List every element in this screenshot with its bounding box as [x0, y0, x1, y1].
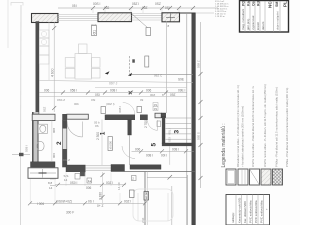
fraction label — [153, 103, 158, 112]
bottom wall segment 3 — [111, 165, 125, 172]
svg-text:006: 006 — [52, 153, 56, 158]
svg-text:008 I: 008 I — [146, 153, 153, 157]
svg-text:mag. consultant: mag. consultant — [241, 9, 245, 30]
svg-text:14,40: 14,40 — [117, 182, 121, 190]
svg-text:0S8 I: 0S8 I — [25, 145, 29, 152]
label box leader — [146, 28, 151, 36]
right outer wall — [192, 13, 196, 225]
stair label box — [157, 121, 161, 127]
svg-text:0SI: 0SI — [95, 93, 100, 97]
top dimension texts — [72, 2, 170, 10]
svg-text:00L I: 00L I — [168, 128, 172, 135]
svg-text:2 300: 2 300 — [96, 132, 100, 140]
stair treads — [166, 118, 193, 139]
svg-text:09? J: 09? J — [109, 82, 118, 86]
window band top-left — [58, 15, 98, 21]
svg-text:S9E: S9E — [178, 78, 184, 82]
arrow mark 2 — [128, 73, 132, 76]
svg-text:008 I: 008 I — [110, 89, 117, 93]
stair door arc — [148, 120, 158, 130]
svg-text:+: + — [266, 207, 268, 211]
svg-text:PL: PL — [283, 1, 288, 7]
door label box 2 — [137, 107, 142, 113]
svg-text:2 180: 2 180 — [99, 192, 103, 200]
interior line mid — [95, 86, 187, 88]
detail box dim texts — [48, 174, 68, 190]
small texts hall top — [94, 121, 100, 129]
svg-text:09Z: 09Z — [170, 93, 176, 97]
svg-text:Příčka - Plné dlouhé zdi 11.5: Příčka - Plné dlouhé zdi 11.5 na tenkovr… — [275, 87, 279, 167]
top right small text stack — [215, 1, 229, 18]
bathroom dim marks — [52, 128, 56, 158]
svg-text:006: 006 — [135, 147, 141, 151]
svg-text:4 600: 4 600 — [50, 68, 54, 77]
bottom wall segment 4 — [130, 165, 161, 169]
right dim rotated texts — [197, 60, 201, 140]
legend box 5 — [273, 169, 283, 185]
svg-text:00b: 00b — [74, 102, 79, 106]
svg-text:5: 5 — [151, 143, 158, 147]
top wall bar 1 — [98, 13, 132, 22]
top extension lines — [93, 8, 179, 13]
svg-text:PVC soklová lišta: PVC soklová lišta — [249, 200, 253, 223]
svg-text:0S8 Z: 0S8 Z — [197, 60, 201, 68]
stair wall L — [162, 117, 192, 146]
svg-text:1a: 1a — [88, 179, 92, 183]
svg-text:09Z C: 09Z C — [154, 74, 163, 78]
svg-text:00Z I: 00Z I — [124, 199, 131, 203]
svg-text:2: 2 — [56, 141, 63, 145]
extension lines bottom — [30, 173, 120, 205]
svg-text:gen.proj.: gen.proj. — [246, 18, 250, 30]
svg-text:0SI: 0SI — [165, 6, 170, 10]
label circle 2 — [132, 176, 137, 181]
bottom wall segment 2 — [66, 165, 85, 172]
tick on garage line — [168, 175, 173, 180]
svg-text:nášlapy:: nášlapy: — [231, 212, 235, 223]
faint page edge — [7, 0, 9, 48]
partition bathroom/hall — [63, 121, 67, 168]
frame line left — [20, 5, 23, 225]
middle wall segment d — [140, 115, 147, 120]
svg-text:0SI: 0SI — [91, 98, 96, 102]
svg-text:006: 006 — [86, 186, 92, 190]
blob top of dashed — [132, 59, 135, 62]
svg-text:Z0Z: Z0Z — [141, 217, 145, 223]
svg-text:8,8: 8,8 — [48, 181, 53, 185]
svg-text:0SZ: 0SZ — [155, 2, 161, 6]
top dimension ticks — [91, 6, 195, 10]
svg-text:Vnitřní nosné zdivo - Pálené d: Vnitřní nosné zdivo - Pálené dlouhé zdi … — [251, 85, 255, 167]
stair corner block — [161, 113, 166, 118]
svg-text:00Z I: 00Z I — [106, 181, 113, 185]
svg-text:Obvodové nosné zdivo - P+D dlo: Obvodové nosné zdivo - P+D dlouhozích (4… — [236, 85, 240, 167]
top-left wall bar — [32, 14, 59, 23]
inner face line right wall — [186, 13, 188, 225]
svg-text:(00Z I): (00Z I) — [106, 102, 115, 106]
hall interior dim line — [132, 150, 195, 152]
svg-text:Keramický sokl (95): Keramický sokl (95) — [238, 198, 242, 223]
svg-text:datum: datum — [261, 21, 265, 30]
bottom dim chain 1 — [55, 184, 126, 186]
svg-text:0S0 I: 0S0 I — [70, 181, 78, 185]
svg-text:006: 006 — [44, 89, 50, 93]
svg-text:Legenda materiálů :: Legenda materiálů : — [220, 123, 227, 167]
legend box 3 — [250, 169, 260, 185]
title block table — [240, 0, 289, 32]
svg-text:05 I: 05 I — [72, 4, 77, 8]
top-right wall link — [180, 12, 196, 14]
svg-text:±0,000: ±0,000 — [108, 141, 112, 150]
interior vertical dim living room — [50, 22, 56, 112]
interior dimension chain — [39, 92, 187, 94]
left tick of chain2 — [12, 154, 30, 156]
svg-text:+ kontaktní zateplovací systém: + kontaktní zateplovací systém 200 mm (1… — [241, 106, 245, 167]
svg-text:Rd: Rd — [257, 1, 261, 6]
svg-text:0SI: 0SI — [168, 137, 172, 142]
interior vertical line stairwell — [165, 22, 167, 114]
top wall bar 2 — [162, 13, 180, 22]
window band top-middle — [132, 14, 163, 20]
top line extension right — [195, 12, 214, 14]
svg-text:PVC soklová lišta: PVC soklová lišta — [254, 200, 258, 223]
label box window O1 — [92, 26, 97, 36]
svg-text:Kan: Kan — [247, 0, 251, 6]
middle wall segment b — [67, 114, 89, 119]
legend box 1 — [226, 169, 236, 185]
svg-text:2 700: 2 700 — [144, 120, 148, 128]
svg-text:NC: NC — [268, 1, 273, 8]
svg-text:09: 09 — [140, 98, 144, 102]
svg-text:09E I: 09E I — [178, 89, 186, 93]
svg-text:058 I: 058 I — [70, 89, 77, 93]
svg-text:3: 3 — [173, 130, 180, 134]
partition hall/room1 — [128, 120, 132, 136]
svg-text:1.18 95 m: 1.18 95 m — [215, 16, 225, 18]
top dimension line — [58, 7, 218, 9]
faint mark top-left — [11, 3, 23, 6]
svg-text:008: 008 — [52, 128, 56, 133]
small box right of texts — [75, 174, 80, 180]
leader line from bar1 — [132, 14, 149, 29]
below-house left detail box — [28, 168, 58, 179]
svg-text:14: 14 — [49, 186, 53, 190]
svg-text:I 006: I 006 — [37, 202, 44, 206]
middle wall segment e — [155, 113, 161, 118]
car faint outline — [133, 189, 173, 221]
hall door swing — [123, 103, 135, 115]
door label box 1 — [101, 107, 106, 114]
label box right of dashed — [145, 56, 149, 67]
svg-text:Příčka - Plné dlouhé zdi 8 na: Příčka - Plné dlouhé zdi 8 na tenkovrstv… — [285, 88, 289, 167]
bottom wall segment 1 — [31, 162, 56, 167]
label box left of garage — [130, 190, 135, 198]
svg-text:008 I: 008 I — [118, 106, 122, 113]
svg-text:0S: 0S — [95, 124, 99, 128]
garage area lines — [144, 172, 146, 226]
svg-text:O1: O1 — [93, 30, 97, 35]
label circle 1a — [87, 178, 92, 183]
left outer wall — [36, 22, 39, 115]
svg-text:Ker. obklad 7200: Ker. obklad 7200 — [243, 201, 247, 223]
svg-text:0SZ: 0SZ — [43, 106, 47, 112]
svg-text:Vnitřní nosné zdivo - P+D dlou: Vnitřní nosné zdivo - P+D dlouh. zdi 11.… — [263, 84, 267, 167]
closet arc hall — [122, 146, 135, 159]
svg-text:0S: 0S — [154, 107, 158, 111]
svg-text:00S I: 00S I — [93, 2, 101, 6]
svg-text:1: 1 — [100, 131, 107, 135]
middle wall segment a (bathroom top) — [32, 114, 55, 120]
left lower outer wall — [32, 112, 38, 163]
extra small texts under chain — [57, 98, 144, 106]
bottom window band — [85, 166, 111, 170]
legend box 4 — [261, 169, 271, 185]
svg-text:0SS Z: 0SS Z — [57, 98, 65, 102]
label box right — [144, 192, 149, 201]
svg-text:0S0 S: 0S0 S — [197, 132, 201, 140]
svg-text:objem vytápění: objem vytápění — [276, 11, 280, 30]
interior line 2 — [39, 96, 187, 98]
svg-text:00E Z: 00E Z — [62, 158, 70, 162]
svg-text:SM: SM — [275, 2, 279, 7]
svg-text:0+ Z: 0+ Z — [97, 204, 104, 208]
legend box 2 — [238, 169, 248, 185]
middle wall junction block — [63, 114, 67, 120]
svg-text:PVC soklová lišta: PVC soklová lišta — [260, 200, 264, 223]
svg-text:kreslil: kreslil — [256, 22, 260, 30]
bottom wall lower face — [125, 171, 196, 173]
svg-text:vypracoval: vypracoval — [251, 15, 255, 30]
arrow mark — [105, 71, 110, 74]
svg-text:Oso: Oso — [252, 0, 256, 6]
pier below segment 2 — [80, 172, 85, 176]
svg-text:00Z: 00Z — [150, 93, 155, 97]
bottom-right table — [226, 195, 270, 226]
svg-text:(0S0I/I+0Z): (0S0I/I+0Z) — [56, 199, 72, 203]
bottom dim chain 2 — [30, 202, 145, 204]
svg-text:300 F: 300 F — [66, 211, 74, 215]
svg-text:05Z I: 05Z I — [132, 2, 139, 6]
right dimension line — [200, 22, 202, 188]
svg-text:±0,00: ±0,00 — [145, 192, 149, 199]
svg-text:006: 006 — [146, 89, 152, 93]
legend entry texts — [236, 84, 289, 167]
bathroom fixtures — [37, 121, 52, 161]
texts right of room4 — [150, 93, 164, 97]
svg-text:008 I: 008 I — [172, 147, 179, 151]
svg-text:PO: PO — [242, 1, 246, 6]
floor-change line — [39, 81, 193, 83]
chimney dashed line — [130, 56, 193, 74]
middle wall segment c — [105, 115, 135, 120]
svg-text:0S I: 0S I — [88, 199, 94, 203]
dining table — [65, 44, 100, 79]
bathroom door swing — [67, 122, 83, 138]
level mark box hall — [108, 137, 112, 151]
stair edge line — [169, 146, 171, 164]
svg-text:00I I: 00I I — [161, 153, 167, 157]
hall vertical dim — [101, 120, 103, 166]
dark tick at chain x130 — [129, 91, 132, 94]
kitchen counter along left wall — [39, 22, 49, 80]
